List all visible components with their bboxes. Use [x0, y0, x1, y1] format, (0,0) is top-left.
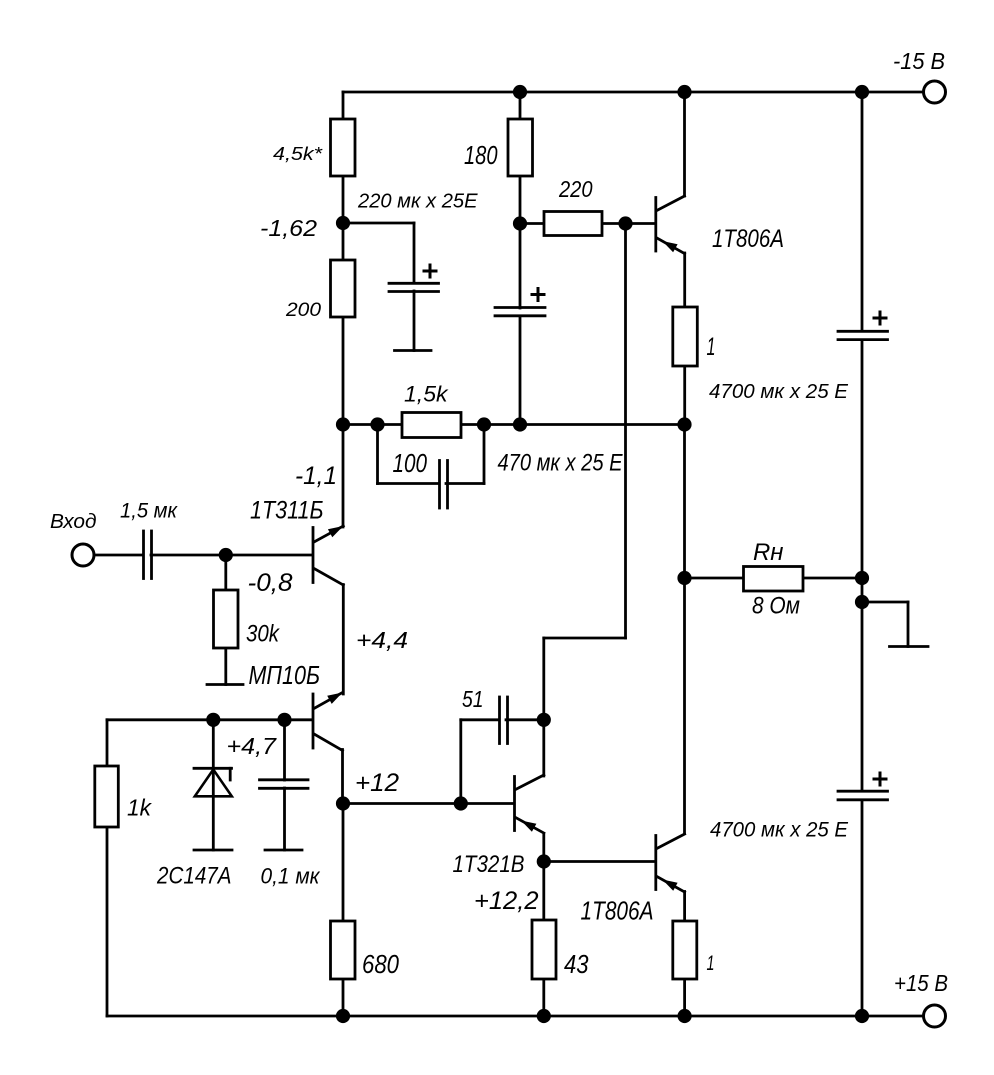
+15V terminal: [924, 1005, 946, 1027]
capacitor C3 470mk x 25E: [495, 308, 545, 316]
polarity +: [531, 287, 546, 302]
svg-text:1k: 1k: [127, 795, 152, 821]
wire: C5 bottom stem: [283, 788, 286, 850]
transistor Q3 1T806A (top): [656, 196, 685, 254]
svg-text:4700 мк х 25 Е: 4700 мк х 25 Е: [709, 381, 849, 403]
svg-text:2С147А: 2С147А: [156, 864, 231, 890]
wire: C3 bottom to mid rail: [519, 316, 522, 425]
terminator below C1: [395, 349, 432, 352]
svg-text:+4,7: +4,7: [227, 733, 278, 759]
node: C2 left: [370, 417, 384, 431]
ground bar under R5 30k: [207, 683, 243, 686]
node: C6/Q4 collector: [537, 713, 551, 727]
wire: R3 bottom to node: [519, 176, 522, 224]
resistor R2 200: [331, 260, 356, 317]
svg-text:+12: +12: [355, 769, 399, 797]
resistor R1 4.5k: [331, 119, 356, 176]
ground (output): [890, 645, 929, 648]
wire: C6 51 left drop: [459, 720, 462, 804]
wire: left bias rail to Q2 base: [107, 718, 311, 721]
wire: R6 to bottom rail: [106, 827, 109, 1016]
wire: bottom +15V rail: [107, 1015, 922, 1018]
wire: node to Q5 base: [544, 860, 654, 863]
wire: zener body line: [212, 769, 215, 850]
node: mid rail left: [336, 417, 350, 431]
wire: node to C3 470 top: [519, 224, 522, 309]
wire: Rn to right column: [803, 577, 862, 580]
wire: node to R8 43: [542, 862, 545, 921]
node: zener top: [206, 713, 220, 727]
wire: input terminal to C4: [95, 554, 143, 557]
node: R3/R4/C3: [513, 216, 527, 230]
wire: mid rail to Q1 collector: [342, 425, 345, 528]
svg-text:-15 В: -15 В: [893, 48, 945, 74]
wire: to C6 left plate: [461, 718, 499, 721]
node: Q4 emitter/Q5 base: [537, 854, 551, 868]
wire: Q4 emitter down: [542, 834, 545, 862]
wire: rail to R1 top: [342, 92, 345, 119]
wire: Q3 collector up: [683, 92, 686, 196]
svg-text:220: 220: [558, 176, 592, 202]
resistor R8 43: [532, 920, 556, 979]
wire: R8 to bottom rail: [542, 979, 545, 1016]
wire: node to R7 680: [342, 804, 345, 922]
capacitor C2 100: [440, 461, 448, 509]
capacitor C8 4700mk x 25E (bottom): [838, 791, 888, 800]
wire: R10 to bottom rail: [683, 979, 686, 1016]
wire: top -15V rail: [343, 91, 922, 94]
wire: R2 bottom to mid rail: [342, 317, 345, 425]
terminator below zener: [194, 849, 232, 852]
wire: Q5 emitter to R10: [683, 892, 686, 922]
wire: output column: [683, 425, 686, 834]
node: R4/Q3 base: [618, 216, 632, 230]
wire: C2 right rise: [483, 425, 486, 484]
svg-text:-1,62: -1,62: [260, 215, 317, 241]
input terminal: [72, 544, 94, 566]
svg-text:51: 51: [462, 686, 484, 712]
wire: C6 right plate to node: [506, 718, 544, 721]
node: R7/bottom rail: [336, 1009, 350, 1023]
transistor Q4 1T321V: [515, 775, 544, 833]
resistor R10 1 (bottom): [673, 921, 697, 979]
wire: elbow left: [544, 637, 626, 640]
node: input/R5: [219, 548, 233, 562]
resistor R4 220: [544, 212, 602, 236]
wire: R4 to Q3 base: [602, 222, 654, 225]
svg-text:1: 1: [707, 952, 715, 975]
svg-text:Rн: Rн: [753, 539, 784, 566]
capacitor C6 51: [500, 697, 508, 744]
node: mid rail right: [677, 417, 691, 431]
wire: Q3 emitter to R9: [683, 253, 686, 307]
svg-text:1Т806А: 1Т806А: [712, 226, 784, 253]
resistor Rn load: [744, 567, 804, 592]
svg-text:1Т321В: 1Т321В: [453, 851, 525, 878]
wire: node to zener: [212, 720, 215, 769]
svg-text:43: 43: [564, 949, 589, 979]
wire: C2 100 left drop: [376, 425, 379, 484]
node: rail/C7: [855, 85, 869, 99]
svg-text:200: 200: [285, 299, 321, 321]
svg-text:680: 680: [362, 951, 400, 979]
wire: to C2 left plate: [378, 482, 440, 485]
svg-text:1: 1: [707, 334, 716, 361]
transistor Q1 1T311B: [313, 526, 343, 585]
wire: mid rail: [343, 423, 685, 426]
node: ground stub: [855, 595, 869, 609]
wire: node to R5 30k: [224, 555, 227, 590]
node: Rn right: [855, 571, 869, 585]
polarity +: [423, 264, 438, 279]
svg-text:100: 100: [393, 448, 428, 478]
resistor R6 1k: [95, 766, 119, 827]
wire: C4 to Q1 base: [151, 554, 311, 557]
capacitor C4 1.5mk input: [144, 531, 152, 579]
wire: ground stub right: [862, 601, 908, 604]
resistor R7 680: [331, 921, 356, 979]
wire: 220 node down: [624, 224, 627, 639]
wire: right column to C7: [861, 92, 864, 331]
node: C6 left/Q4 base: [454, 796, 468, 810]
wire: node to R4 220: [520, 222, 544, 225]
transistor Q2 MP10B: [313, 693, 343, 751]
svg-text:-0,8: -0,8: [248, 569, 293, 597]
capacitor C7 4700mk x 25E (top): [838, 331, 888, 339]
wire: left rail corner down to R6 1k: [106, 720, 109, 766]
svg-text:1Т311Б: 1Т311Б: [250, 498, 324, 525]
wire: C1 bottom stem: [413, 291, 416, 351]
node: C2 right: [477, 417, 491, 431]
wire: R7 to bottom rail: [342, 979, 345, 1016]
wire: R1 bottom through node -1.62 to R2: [342, 175, 345, 260]
svg-text:470 мк х 25 Е: 470 мк х 25 Е: [498, 450, 624, 477]
zener diode VD1 2C147A: [194, 768, 232, 796]
wire: down to Q4 collector: [542, 638, 545, 776]
wire: ground stub down: [907, 602, 910, 647]
node: R8/bottom rail: [537, 1009, 551, 1023]
svg-text:220 мк х 25Е: 220 мк х 25Е: [357, 191, 478, 213]
svg-text:+12,2: +12,2: [474, 887, 539, 915]
wire: node to Rn: [685, 577, 744, 580]
svg-text:1Т806А: 1Т806А: [581, 898, 654, 926]
wire: rail to R3 180 top: [519, 92, 522, 119]
wire: R9 to mid rail: [683, 366, 686, 425]
polarity +: [873, 772, 888, 787]
wire: node to C5 0.1: [283, 720, 286, 780]
capacitor C5 0.1mk: [260, 780, 309, 789]
svg-text:МП10Б: МП10Б: [249, 662, 321, 690]
capacitor C1 220mk x 25E: [389, 283, 439, 291]
wire: +12 node to Q4 base: [343, 802, 513, 805]
wire: node -1.62 to C1: [343, 222, 414, 225]
node: R10/bottom rail: [678, 1009, 692, 1023]
svg-text:4700 мк х 25 Е: 4700 мк х 25 Е: [710, 818, 849, 842]
terminator below C5: [265, 849, 302, 852]
resistor R9 1 (top): [673, 307, 698, 366]
svg-text:4,5k*: 4,5k*: [273, 143, 323, 164]
node: rail/Q3 collector: [677, 85, 691, 99]
wire: Q2 emitter down: [341, 750, 344, 804]
svg-text:180: 180: [464, 142, 498, 170]
node: -1.62: [336, 216, 350, 230]
svg-text:8 Ом: 8 Ом: [752, 593, 800, 619]
node: +12: [336, 796, 350, 810]
wire: down to C8: [861, 602, 864, 791]
wire: Q1 emitter to Q2 collector: [342, 585, 345, 695]
svg-text:0,1 мк: 0,1 мк: [261, 864, 321, 889]
svg-text:30k: 30k: [246, 620, 280, 647]
svg-text:+4,4: +4,4: [356, 627, 408, 653]
transistor Q5 1T806A (bottom): [656, 834, 685, 892]
wire: C8 to bottom rail: [861, 800, 864, 1016]
svg-text:1,5k: 1,5k: [404, 382, 449, 407]
wire: R5 to ground bar: [224, 648, 227, 685]
node: C5 top: [277, 713, 291, 727]
polarity +: [873, 311, 888, 326]
svg-text:-1,1: -1,1: [295, 463, 337, 490]
node: output/Rn: [677, 571, 691, 585]
-15V terminal: [924, 81, 946, 103]
resistor R5 30k: [214, 590, 239, 648]
wire: C2 right plate out: [446, 482, 484, 485]
resistor R3 180: [508, 119, 533, 176]
svg-text:+15 В: +15 В: [894, 970, 948, 996]
resistor R5h 1.5k: [402, 413, 461, 438]
node: C8/bottom rail: [855, 1009, 869, 1023]
svg-text:Вход: Вход: [50, 511, 97, 533]
wire: C1 top stem: [413, 223, 416, 283]
node: C3 bottom: [513, 417, 527, 431]
svg-text:1,5 мк: 1,5 мк: [120, 500, 178, 523]
node: rail/R3: [513, 85, 527, 99]
wire: C7 to ground node: [861, 340, 864, 602]
